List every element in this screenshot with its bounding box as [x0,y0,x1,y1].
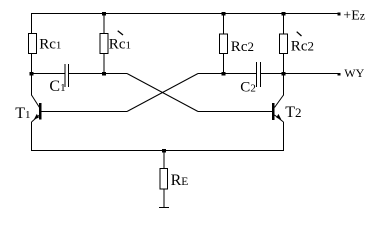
wire: node D down to T2 collector [283,74,285,96]
T1 emitter stroke [32,115,40,122]
T2 base bar [272,103,275,120]
wire: RE top lead [163,151,165,170]
junction dot top rail / R'c1 [102,12,106,16]
T2 emitter stroke [275,115,284,122]
wire: Rc2 bottom to node C [223,54,225,75]
resistor R'c2 [280,34,288,54]
wire: R'c1 bottom to node B [103,54,105,75]
wire: WY output line [284,73,339,75]
resistor Rc1 [29,34,37,54]
junction dot top rail / R'c2 [282,12,286,16]
svg-text:Rc1: Rc1 [39,37,61,53]
T1 base bar [39,103,42,120]
junction dot bottom rail / RE [162,149,166,153]
svg-text:Rc2: Rc2 [291,39,314,55]
node A (collector T1 / C1 left) [30,72,34,76]
wire: cross-coupling diagonal from C2 side to T1 base [127,74,198,112]
svg-text:C1: C1 [49,78,65,95]
svg-text:C2: C2 [240,79,256,95]
wire: top rail junction to R'c1 [103,14,105,35]
resistor RE [160,169,168,190]
svg-text:WY: WY [344,66,364,80]
node B (R'c1 bottom / C1 right) [102,72,106,76]
T1 collector stroke [32,95,40,108]
svg-text:T2: T2 [285,104,301,121]
svg-text:T1: T1 [15,105,30,122]
junction dot top rail / Rc2 [222,12,226,16]
terminal dot WY [338,73,341,76]
wire: bottom rail [31,150,284,152]
transistor T2 [273,95,283,122]
T1 emitter arrow [34,114,39,120]
wire: T2 emitter down to bottom rail [283,122,285,151]
wire: C2 right lead to node D [261,73,284,75]
wire: cross-coupling diagonal from node B side to T2 base [127,74,198,112]
svg-text:Rc1: Rc1 [109,37,131,53]
wire: T1 emitter down to bottom rail [31,122,33,151]
wire: T1 base horizontal [41,111,127,113]
terminal dot +Ez [338,12,341,15]
wire: R'c2 bottom to node D [283,54,285,75]
wire: left vertical (top rail to Rc1) [31,14,33,35]
node C (Rc2 bottom / C2 left wire) [222,72,226,76]
wire: top rail junction to Rc2 [223,14,225,35]
svg-text:Rc2: Rc2 [231,39,254,55]
prime accent over c of R'c1 [118,31,123,35]
svg-text:+Ez: +Ez [343,9,365,24]
T2 emitter arrow [276,114,281,120]
resistor R'c1 [100,34,108,54]
resistor Rc2 [220,34,228,54]
transistor T1 [32,95,41,122]
wire: C1 left lead [32,73,65,75]
capacitor C2 [257,62,261,87]
node D (R'c2 bottom / C2 right / T2 collector / WY) [282,72,286,76]
wire: top supply rail [31,13,338,15]
capacitor C1 [65,64,69,87]
wire: node A down to T1 collector [31,74,33,96]
wire: RE bottom lead [163,189,165,207]
ground terminal stub under RE [159,207,169,209]
wire: C1 right lead to node B [69,73,127,75]
wire: T2 base horizontal [198,111,272,113]
wire: Rc1 bottom to node A [31,54,33,75]
wire: top rail junction to R'c2 [283,14,285,35]
prime accent over c of R'c2 [297,32,302,36]
svg-text:RE: RE [171,172,189,189]
T2 collector stroke [275,95,284,108]
wire: C2 left lead [198,73,256,75]
